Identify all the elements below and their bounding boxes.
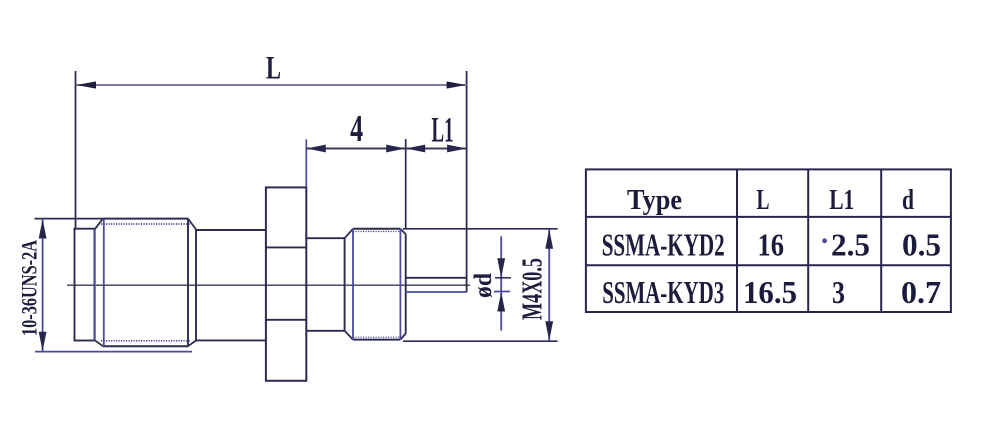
svg-text:M4X0.5: M4X0.5 [518,258,549,320]
svg-text:16.5: 16.5 [743,274,797,310]
svg-text:16: 16 [758,227,785,263]
svg-text:2.5: 2.5 [831,227,870,263]
dimension L line with arrows [76,81,467,88]
dimension od line with arrows and ticks [494,236,511,330]
svg-text:4: 4 [350,108,363,150]
table row SSMA-KYD2 [602,227,941,263]
svg-text:10-36UNS-2A: 10-36UNS-2A [17,240,42,336]
svg-text:L: L [757,184,770,216]
table header row [627,184,914,216]
end cap (rear knurl) [75,229,95,341]
centerline [67,284,470,286]
svg-text:0.7: 0.7 [901,274,941,310]
svg-text:SSMA-KYD3: SSMA-KYD3 [602,274,724,310]
svg-text:L1: L1 [829,184,854,216]
dimension L1 shared extension line (thread end) [405,139,407,229]
dimension 4 line with arrows [306,145,405,153]
threaded section M4 [345,229,406,340]
dimension L1 line with arrows [406,145,467,153]
svg-text:SSMA-KYD2: SSMA-KYD2 [602,227,725,263]
dimension L extension lines [76,71,467,292]
M4X0.5 dimension extension lines [403,229,558,341]
cylinder between flange and thread [306,238,344,331]
table grid [586,169,951,312]
M4X0.5 dimension line with arrows [545,229,553,341]
thread dimension 10-36UNS-2A extension lines [35,219,193,352]
center pin [406,278,467,292]
svg-text:Type: Type [627,184,682,216]
flange [266,187,306,380]
svg-text:ød: ød [470,273,497,298]
svg-text:3: 3 [832,274,845,310]
dimension 4 extension line (flange right, above part) [305,139,307,187]
svg-text:L: L [266,51,281,87]
hex nut body [95,219,196,347]
table row SSMA-KYD3 [602,274,941,310]
svg-text:L1: L1 [432,110,454,150]
svg-text:0.5: 0.5 [902,227,941,263]
cylinder between hex and flange [196,230,266,340]
svg-text:d: d [902,184,914,216]
thread dimension line with arrows [39,219,47,352]
